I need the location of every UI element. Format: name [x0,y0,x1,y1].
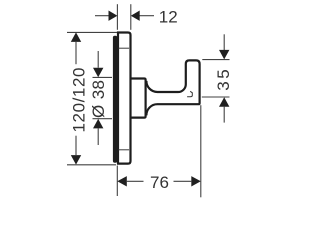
svg-text:120/120: 120/120 [70,68,89,133]
svg-text:35: 35 [214,69,233,91]
svg-text:Ø 38: Ø 38 [89,80,108,118]
svg-text:76: 76 [150,173,169,192]
svg-text:12: 12 [159,7,178,26]
